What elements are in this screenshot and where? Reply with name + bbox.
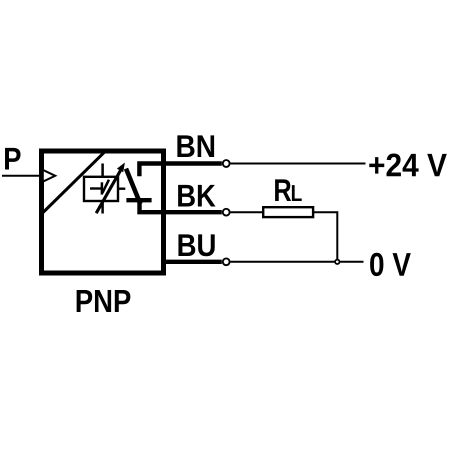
wire BU (box to terminal) xyxy=(161,260,222,264)
wire BN (upper contact to terminal) xyxy=(139,164,221,177)
label 0 V xyxy=(370,253,411,276)
label BN xyxy=(177,135,214,157)
wire BK terminal to resistor xyxy=(231,211,263,213)
terminal circle BU xyxy=(223,258,230,265)
label BK xyxy=(178,185,215,207)
label RL xyxy=(275,179,302,201)
label BU xyxy=(178,234,214,256)
label PNP xyxy=(77,290,131,312)
setpoint arrow (small, down-left) xyxy=(102,180,109,195)
arrowhead P input xyxy=(43,170,55,182)
transducer output line xyxy=(118,187,125,189)
wire resistor to corner xyxy=(313,212,337,262)
junction node 0V xyxy=(335,260,339,264)
diagonal separator line xyxy=(43,153,105,213)
resistor RL xyxy=(263,207,313,217)
label +24 V xyxy=(369,154,447,177)
adjustment arrow (long, up-right) xyxy=(96,163,125,214)
switch fixed contact T-bar xyxy=(126,198,151,202)
wire 0V rail xyxy=(231,261,364,263)
node P label xyxy=(5,148,21,170)
wire BK (lower contact to terminal) xyxy=(140,200,222,212)
transducer horizontal line xyxy=(90,187,103,189)
transducer vertical line xyxy=(101,164,104,214)
wire P input xyxy=(2,175,42,177)
terminal circle BK xyxy=(223,209,230,216)
wire +24V rail xyxy=(231,163,366,165)
sensor body box xyxy=(42,151,164,273)
switch lever xyxy=(126,169,140,204)
pressure transducer box xyxy=(84,177,118,201)
terminal circle BN xyxy=(223,160,230,167)
